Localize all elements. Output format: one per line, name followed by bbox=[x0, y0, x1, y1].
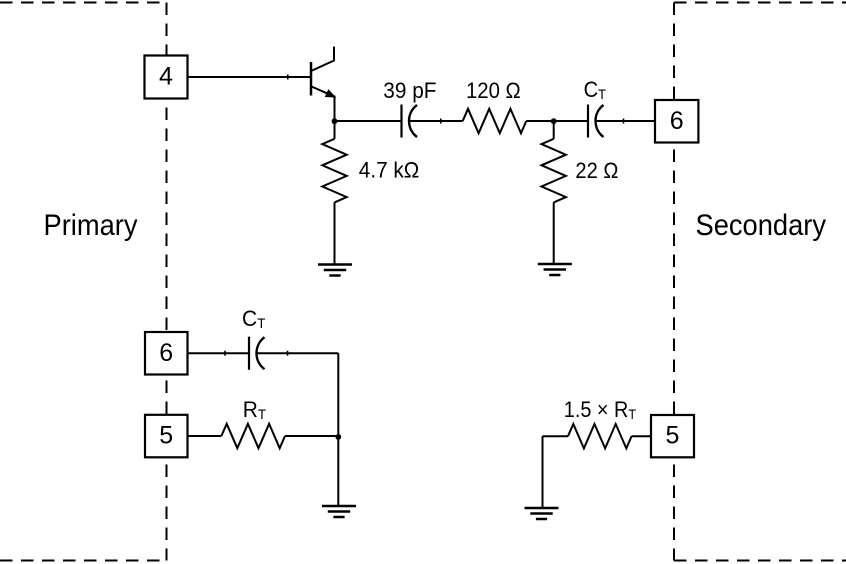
svg-text:Primary: Primary bbox=[44, 209, 138, 242]
svg-text:6: 6 bbox=[670, 107, 684, 135]
svg-text:6: 6 bbox=[159, 339, 173, 367]
svg-text:4: 4 bbox=[159, 63, 173, 91]
svg-text:120 Ω: 120 Ω bbox=[466, 78, 521, 103]
svg-text:1.5 × RT: 1.5 × RT bbox=[564, 397, 637, 422]
svg-text:Secondary: Secondary bbox=[696, 209, 827, 242]
svg-text:4.7 kΩ: 4.7 kΩ bbox=[359, 158, 420, 183]
svg-text:5: 5 bbox=[666, 422, 680, 450]
svg-text:22 Ω: 22 Ω bbox=[575, 158, 618, 183]
svg-text:39 pF: 39 pF bbox=[383, 78, 436, 103]
svg-text:5: 5 bbox=[159, 422, 173, 450]
